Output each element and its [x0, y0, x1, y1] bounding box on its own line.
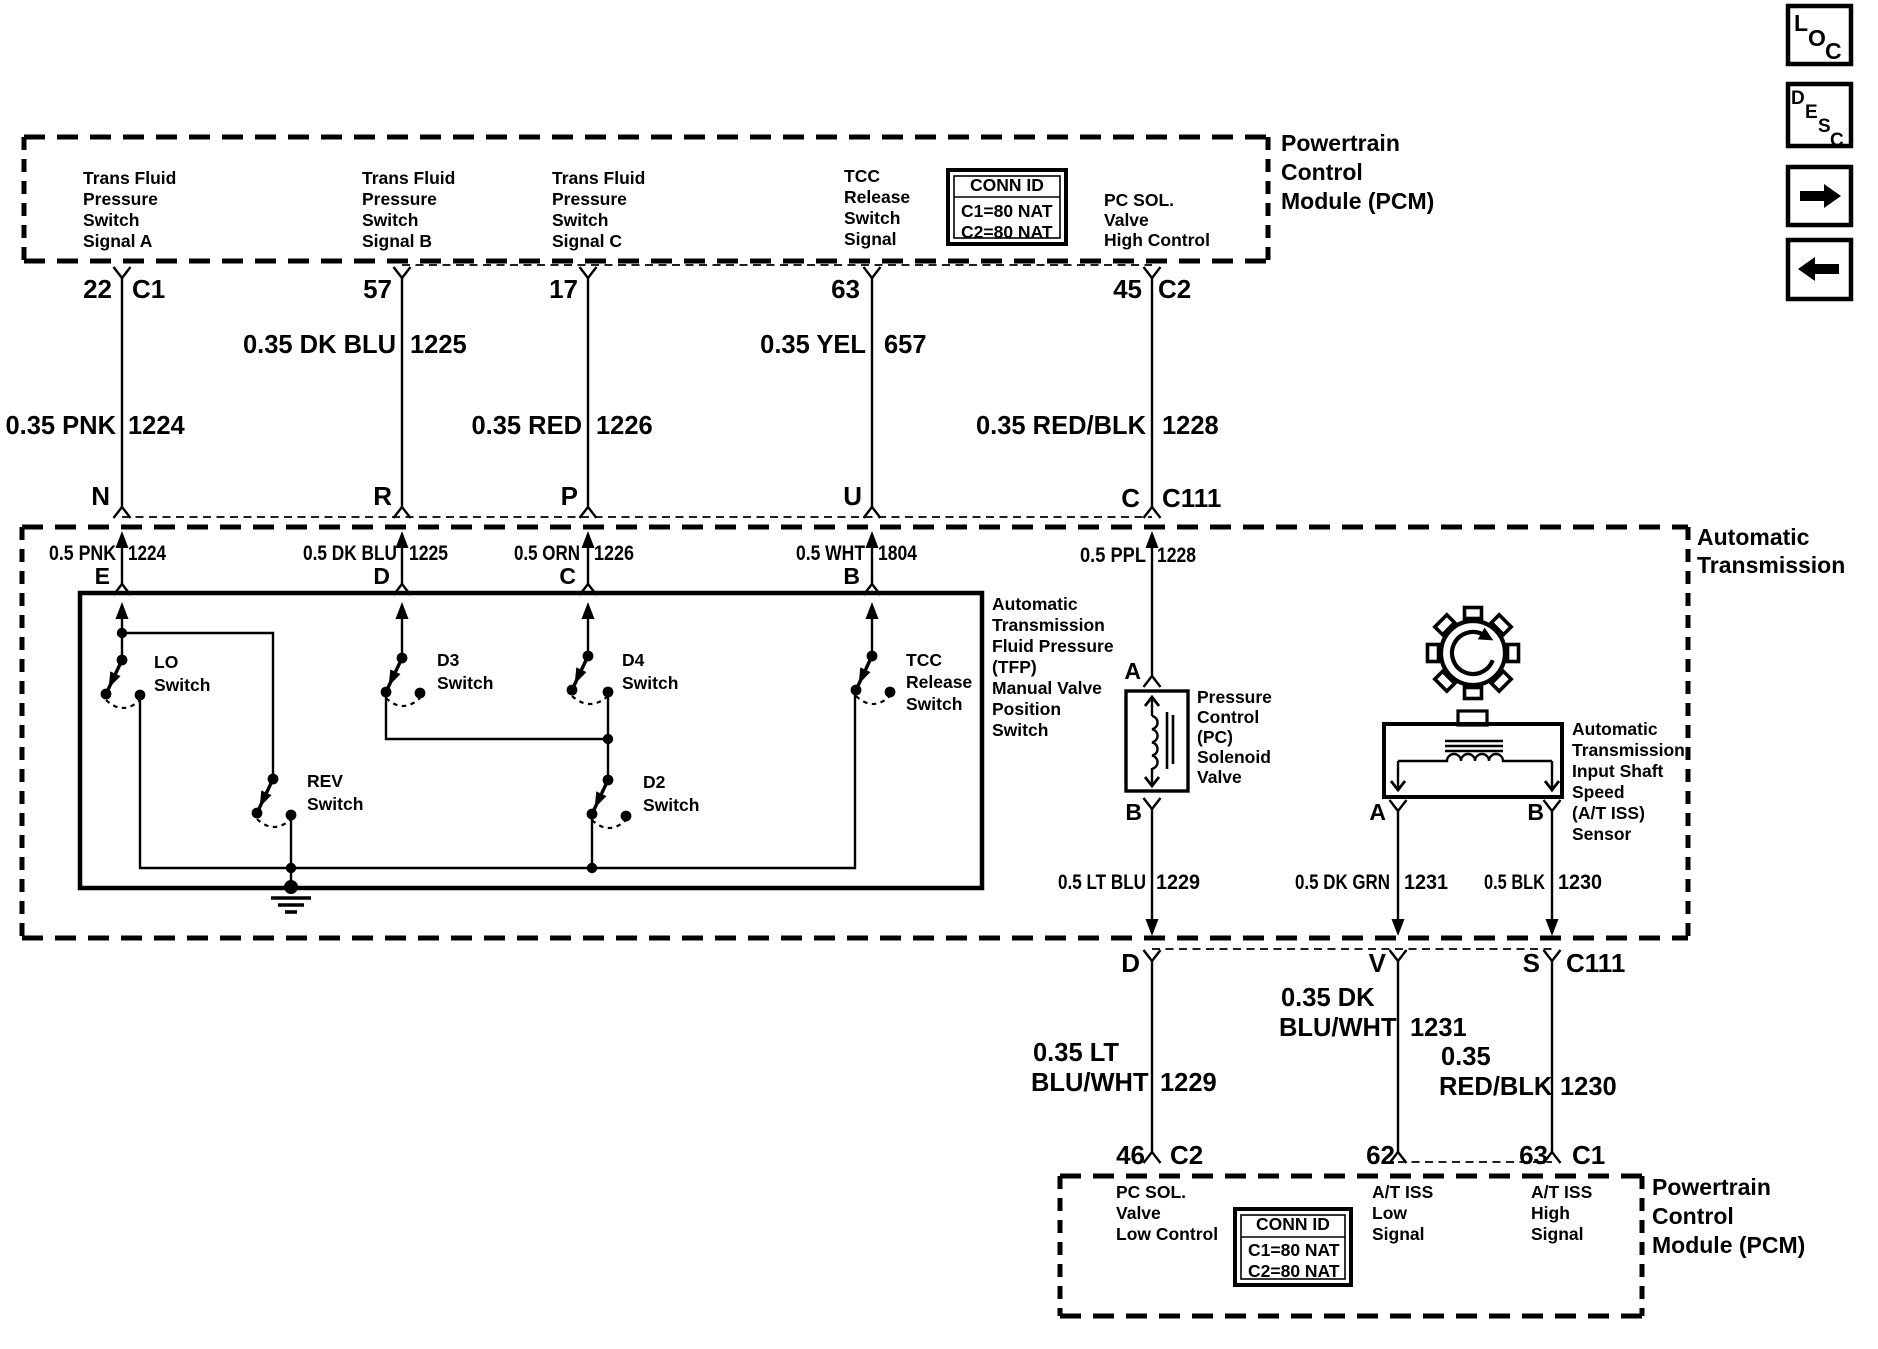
A/T ISS sensor box [1384, 711, 1562, 797]
D2 switch [587, 775, 632, 828]
wire D2 to ground bus [591, 814, 593, 868]
svg-text:0.5 WHT: 0.5 WHT [796, 542, 865, 565]
svg-text:1226: 1226 [596, 412, 653, 440]
svg-text:1224: 1224 [128, 412, 186, 440]
Automatic Transmission dashed box [22, 525, 1688, 530]
svg-text:1804: 1804 [878, 542, 917, 565]
icon button arrow right [1788, 167, 1851, 225]
wire 657 PCM to C111 [871, 278, 873, 507]
label D2 Switch [643, 772, 699, 815]
svg-text:63: 63 [831, 274, 860, 304]
svg-text:P: P [561, 481, 578, 511]
svg-text:Trans Fluid: Trans Fluid [362, 168, 455, 188]
connector C1 dashed line top [402, 264, 1152, 266]
svg-text:0.5 DK BLU: 0.5 DK BLU [303, 542, 397, 565]
node junction REV bus [286, 863, 296, 873]
svg-text:0.5 PPL: 0.5 PPL [1080, 544, 1146, 567]
svg-text:C: C [1830, 130, 1844, 151]
svg-text:C1: C1 [1572, 1140, 1605, 1170]
svg-text:1229: 1229 [1156, 871, 1200, 894]
svg-text:0.35 LT: 0.35 LT [1033, 1039, 1119, 1067]
svg-text:Switch: Switch [643, 795, 699, 815]
wire 1225 PCM to C111 [401, 278, 403, 507]
connector C1 dashed line bottom [1398, 1161, 1552, 1163]
svg-text:Transmission: Transmission [1697, 552, 1845, 578]
label D4 Switch [622, 650, 678, 693]
svg-text:Solenoid: Solenoid [1197, 747, 1271, 767]
title Powertrain Control Module (PCM) top [1281, 130, 1434, 214]
label LO Switch [154, 652, 210, 695]
wire 1224 PCM to C111 [121, 278, 123, 507]
wire 1229 PC solenoid to C111 [1144, 798, 1161, 936]
svg-text:CONN ID: CONN ID [1256, 1214, 1330, 1234]
svg-text:Position: Position [992, 699, 1061, 719]
svg-text:E: E [1805, 102, 1818, 123]
svg-text:Sensor: Sensor [1572, 824, 1632, 844]
svg-text:S: S [1818, 116, 1831, 137]
wire 1228 PCM to C111 [1151, 278, 1153, 507]
pin C C111 fork [1144, 507, 1161, 518]
svg-text:Release: Release [844, 187, 910, 207]
D3 switch [381, 653, 426, 706]
svg-text:46: 46 [1116, 1140, 1145, 1170]
svg-text:45: 45 [1113, 274, 1142, 304]
pin V fork lower [1390, 950, 1407, 961]
svg-text:Control: Control [1281, 159, 1363, 185]
pin U fork [864, 507, 881, 518]
CONN ID table top [948, 170, 1066, 244]
label PC SOL. Valve High Control [1104, 190, 1210, 250]
svg-text:Automatic: Automatic [1697, 524, 1810, 550]
label TCC Release Switch [906, 650, 972, 714]
svg-text:C: C [1121, 483, 1140, 513]
svg-text:657: 657 [884, 331, 927, 359]
svg-text:C: C [1825, 38, 1842, 64]
svg-text:D: D [1121, 948, 1140, 978]
svg-text:C1: C1 [132, 274, 165, 304]
svg-text:Switch: Switch [154, 675, 210, 695]
svg-text:1225: 1225 [409, 542, 448, 565]
svg-text:Valve: Valve [1104, 210, 1149, 230]
svg-text:Control: Control [1652, 1203, 1734, 1229]
svg-text:Signal C: Signal C [552, 231, 622, 251]
svg-text:Switch: Switch [844, 208, 900, 228]
wire 1230 ISS B to C111 [1544, 800, 1561, 936]
svg-text:1228: 1228 [1157, 544, 1196, 567]
svg-text:BLU/WHT: BLU/WHT [1279, 1014, 1397, 1042]
D4 switch [567, 651, 614, 704]
svg-text:(A/T ISS): (A/T ISS) [1572, 803, 1645, 823]
TCC release switch [851, 651, 896, 704]
icon button DESC [1788, 84, 1851, 151]
svg-text:N: N [91, 481, 110, 511]
pin 22 C1 connector fork [114, 267, 131, 278]
icon button arrow left [1788, 240, 1851, 299]
svg-text:C: C [559, 563, 576, 589]
pigtail E arrow stub [114, 531, 131, 595]
svg-text:Module (PCM): Module (PCM) [1652, 1232, 1805, 1258]
D3 switch feed arrow [396, 602, 409, 658]
svg-text:Pressure: Pressure [362, 189, 437, 209]
PCM bottom box (Powertrain Control Module) [1060, 1174, 1642, 1179]
svg-text:S: S [1523, 948, 1540, 978]
svg-text:U: U [843, 481, 862, 511]
svg-text:0.5 DK GRN: 0.5 DK GRN [1295, 871, 1390, 894]
TCC release switch feed arrow [866, 602, 879, 656]
pin 45 C2 fork [1144, 267, 1161, 278]
pin 57 fork [394, 267, 411, 278]
svg-text:Low Control: Low Control [1116, 1224, 1218, 1244]
svg-text:Pressure: Pressure [1197, 687, 1272, 707]
svg-text:Valve: Valve [1197, 767, 1242, 787]
label Trans Fluid Pressure Switch Signal C [552, 168, 645, 251]
svg-text:CONN ID: CONN ID [970, 175, 1044, 195]
label REV Switch [307, 771, 363, 814]
svg-text:0.5 PNK: 0.5 PNK [49, 542, 116, 565]
svg-text:Switch: Switch [992, 720, 1048, 740]
svg-text:(TFP): (TFP) [992, 657, 1037, 677]
svg-text:Signal: Signal [1531, 1224, 1584, 1244]
svg-text:A/T ISS: A/T ISS [1372, 1182, 1433, 1202]
svg-text:Automatic: Automatic [992, 594, 1078, 614]
svg-text:0.35 DK: 0.35 DK [1281, 984, 1375, 1012]
svg-text:1230: 1230 [1560, 1073, 1617, 1101]
svg-text:Automatic: Automatic [1572, 719, 1658, 739]
pin D fork lower [1144, 950, 1161, 961]
svg-text:RED/BLK: RED/BLK [1439, 1073, 1553, 1101]
svg-text:Valve: Valve [1116, 1203, 1161, 1223]
svg-text:C2=80 NAT: C2=80 NAT [1248, 1261, 1340, 1281]
svg-text:0.5 LT BLU: 0.5 LT BLU [1058, 871, 1146, 894]
wire 1231 ISS A to C111 [1390, 800, 1407, 936]
svg-text:A: A [1124, 658, 1141, 684]
wire REV contact to ground [290, 815, 292, 887]
pin N fork [114, 507, 131, 518]
LO switch feed arrow [116, 602, 129, 660]
svg-text:L: L [1794, 10, 1808, 36]
svg-text:O: O [1808, 25, 1826, 51]
pigtail C arrow stub [580, 531, 597, 595]
svg-text:0.35 YEL: 0.35 YEL [760, 331, 866, 359]
svg-text:Switch: Switch [437, 673, 493, 693]
svg-text:PC SOL.: PC SOL. [1104, 190, 1174, 210]
svg-text:R: R [373, 481, 392, 511]
svg-text:Transmission: Transmission [1572, 740, 1685, 760]
connector C111 dashed line [122, 516, 1152, 518]
wire 1226 PCM to C111 [587, 278, 589, 507]
svg-text:Input Shaft: Input Shaft [1572, 761, 1664, 781]
pin S C111 fork lower [1544, 950, 1561, 961]
svg-text:Trans Fluid: Trans Fluid [552, 168, 645, 188]
pin R fork [394, 507, 411, 518]
svg-text:1225: 1225 [410, 331, 467, 359]
wire LO right contact to ground bus [140, 692, 855, 868]
svg-text:Switch: Switch [307, 794, 363, 814]
svg-text:A: A [1369, 799, 1386, 825]
svg-text:0.35 RED: 0.35 RED [471, 412, 582, 440]
REV switch [252, 774, 297, 827]
svg-text:Powertrain: Powertrain [1281, 130, 1400, 156]
svg-text:V: V [1369, 948, 1387, 978]
svg-text:Pressure: Pressure [552, 189, 627, 209]
svg-text:17: 17 [549, 274, 578, 304]
svg-text:E: E [95, 563, 110, 589]
svg-text:Switch: Switch [362, 210, 418, 230]
svg-text:1231: 1231 [1410, 1014, 1467, 1042]
label Trans Fluid Pressure Switch Signal A [83, 168, 176, 251]
svg-text:1230: 1230 [1558, 871, 1602, 894]
svg-text:Speed: Speed [1572, 782, 1625, 802]
svg-text:Signal: Signal [844, 229, 897, 249]
svg-text:Module (PCM): Module (PCM) [1281, 188, 1434, 214]
PC solenoid valve box [1126, 691, 1188, 791]
svg-text:1231: 1231 [1404, 871, 1448, 894]
svg-text:22: 22 [83, 274, 112, 304]
wire D3 to D4 branch [386, 692, 608, 739]
label A/T ISS Low Signal [1372, 1182, 1433, 1244]
svg-text:High: High [1531, 1203, 1570, 1223]
svg-text:62: 62 [1366, 1140, 1395, 1170]
label A/T ISS High Signal [1531, 1182, 1592, 1244]
svg-text:C2: C2 [1158, 274, 1191, 304]
svg-text:Signal A: Signal A [83, 231, 153, 251]
icon button LOC [1788, 6, 1851, 64]
pigtail B arrow stub [864, 531, 881, 595]
node junction D3/D4 [603, 734, 613, 744]
D4 switch feed arrow [582, 602, 595, 656]
svg-text:D4: D4 [622, 650, 645, 670]
svg-text:Pressure: Pressure [83, 189, 158, 209]
svg-text:Switch: Switch [906, 694, 962, 714]
svg-text:1224: 1224 [128, 542, 166, 565]
gear icon (input shaft) [1428, 608, 1519, 699]
pin 17 fork [580, 267, 597, 278]
label TCC Release Switch Signal [844, 166, 910, 249]
label Automatic Transmission Fluid Pressure (TFP) Manual Valve Position Switch [992, 594, 1114, 740]
svg-text:A/T ISS: A/T ISS [1531, 1182, 1592, 1202]
svg-text:63: 63 [1519, 1140, 1548, 1170]
svg-text:Signal B: Signal B [362, 231, 432, 251]
svg-text:C1=80 NAT: C1=80 NAT [1248, 1240, 1340, 1260]
title Automatic Transmission [1697, 524, 1845, 578]
TFP manual valve position switch box [80, 593, 982, 888]
svg-text:C2=80 NAT: C2=80 NAT [961, 222, 1053, 242]
svg-text:1229: 1229 [1160, 1069, 1217, 1097]
svg-text:57: 57 [363, 274, 392, 304]
svg-text:1228: 1228 [1162, 412, 1219, 440]
svg-text:Signal: Signal [1372, 1224, 1425, 1244]
PCM top box (Powertrain Control Module) [24, 135, 1268, 140]
title Powertrain Control Module (PCM) bottom [1652, 1174, 1805, 1258]
svg-text:0.35 DK BLU: 0.35 DK BLU [243, 331, 396, 359]
svg-text:C111: C111 [1162, 483, 1221, 513]
svg-text:0.35 RED/BLK: 0.35 RED/BLK [976, 412, 1147, 440]
svg-text:0.35: 0.35 [1441, 1043, 1491, 1071]
wire 1228 PPL C111 to PC solenoid [1144, 531, 1161, 687]
ground [271, 880, 311, 912]
svg-text:High Control: High Control [1104, 230, 1210, 250]
label Pressure Control (PC) Solenoid Valve [1197, 687, 1272, 787]
label Trans Fluid Pressure Switch Signal B [362, 168, 455, 251]
svg-text:Fluid Pressure: Fluid Pressure [992, 636, 1114, 656]
svg-text:Powertrain: Powertrain [1652, 1174, 1771, 1200]
svg-text:D2: D2 [643, 772, 666, 792]
svg-text:TCC: TCC [844, 166, 880, 186]
label D3 Switch [437, 650, 493, 693]
svg-text:C2: C2 [1170, 1140, 1203, 1170]
svg-text:Release: Release [906, 672, 972, 692]
svg-text:REV: REV [307, 771, 343, 791]
wire 1229 C111 to PCM [1144, 961, 1161, 1163]
svg-text:0.5 ORN: 0.5 ORN [514, 542, 580, 565]
svg-text:1226: 1226 [594, 542, 634, 565]
CONN ID table bottom [1235, 1209, 1351, 1285]
svg-text:Switch: Switch [622, 673, 678, 693]
svg-text:(PC): (PC) [1197, 727, 1233, 747]
svg-text:PC SOL.: PC SOL. [1116, 1182, 1186, 1202]
svg-text:B: B [1125, 799, 1142, 825]
svg-text:BLU/WHT: BLU/WHT [1031, 1069, 1149, 1097]
svg-text:Switch: Switch [552, 210, 608, 230]
svg-text:C111: C111 [1566, 948, 1625, 978]
svg-text:Low: Low [1372, 1203, 1407, 1223]
connector C111 dashed line lower [1152, 948, 1554, 950]
svg-text:Control: Control [1197, 707, 1259, 727]
svg-text:B: B [1527, 799, 1544, 825]
pin P fork [580, 507, 597, 518]
pigtail D arrow stub [394, 531, 411, 595]
svg-text:Trans Fluid: Trans Fluid [83, 168, 176, 188]
node junction D2 bus [587, 863, 597, 873]
svg-text:Switch: Switch [83, 210, 139, 230]
LO switch [101, 655, 146, 708]
svg-text:D: D [1791, 88, 1805, 109]
svg-text:D3: D3 [437, 650, 460, 670]
svg-text:0.5 BLK: 0.5 BLK [1484, 871, 1545, 894]
label PC SOL. Valve Low Control [1116, 1182, 1218, 1244]
wire 1231 C111 to PCM [1390, 961, 1407, 1163]
svg-text:B: B [843, 563, 860, 589]
svg-text:Manual Valve: Manual Valve [992, 678, 1102, 698]
svg-text:0.35 PNK: 0.35 PNK [5, 412, 116, 440]
wire D4 right contact to D2 [607, 692, 609, 780]
label Automatic Transmission Input Shaft Speed (A/T ISS) Sensor [1572, 719, 1685, 844]
pin 63 fork [864, 267, 881, 278]
wire 1230 C111 to PCM [1544, 961, 1561, 1163]
wire LO junction to REV switch [122, 633, 273, 779]
svg-text:LO: LO [154, 652, 178, 672]
svg-text:C1=80 NAT: C1=80 NAT [961, 201, 1053, 221]
svg-text:D: D [373, 563, 390, 589]
node junction LO to REV [117, 628, 127, 638]
svg-text:TCC: TCC [906, 650, 942, 670]
svg-text:Transmission: Transmission [992, 615, 1105, 635]
